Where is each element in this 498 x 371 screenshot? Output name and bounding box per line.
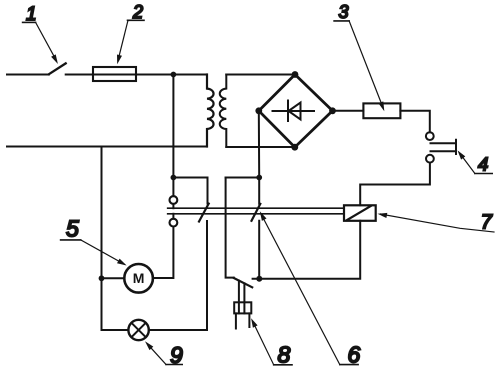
contact lower terminal circle [170, 219, 178, 227]
wire top mains stub L1 [7, 74, 49, 76]
wire secondary bottom to bridge [226, 146, 294, 148]
node dot junction left [171, 175, 177, 181]
label 7 arrowhead [378, 213, 388, 218]
label 2 underline [128, 19, 145, 21]
thermal element 8 left leg [235, 313, 237, 328]
label 6 underline [340, 364, 358, 366]
label 6 leader [261, 214, 340, 364]
node dot bridge bottom corner [291, 144, 298, 151]
label 5 underline [61, 239, 81, 241]
label 8 leader [253, 322, 274, 365]
thermal element 8 bimetal strips [239, 281, 245, 314]
contact upper terminal circle [170, 196, 178, 204]
connector X1 plug lines [431, 140, 457, 154]
wire through fuse to transformer [93, 74, 207, 76]
lamp HL1 cross [131, 323, 145, 337]
bridge rectifier VD1 diamond [259, 75, 333, 148]
label 3 arrowhead [378, 101, 384, 111]
resistor R1 body [363, 103, 400, 118]
label 9 underline [166, 364, 182, 366]
node dot bridge left corner [255, 107, 262, 114]
connector X1 lower terminal circle [426, 155, 434, 163]
label 9 arrowhead [145, 341, 153, 350]
diode symbol inside bridge [273, 101, 315, 122]
fuse F1 body [93, 67, 136, 81]
label 1 underline [23, 21, 36, 23]
wire junction horizontal right segment [226, 177, 260, 179]
wire node to motor [102, 277, 125, 279]
wire bridge minus vertical [258, 111, 260, 279]
relay K1 diagonal [347, 206, 371, 220]
connector X1 upper terminal circle [426, 132, 434, 140]
label 5 arrowhead [117, 259, 127, 266]
svg-text:2: 2 [132, 2, 143, 22]
thermal element 8 heater box [234, 302, 251, 313]
label 5 leader [81, 240, 125, 264]
label 1 leader [36, 22, 57, 60]
svg-text:3: 3 [339, 2, 349, 22]
thermal element 8 right leg [248, 313, 250, 327]
switch S1 blade [49, 63, 66, 74]
label 2 arrowhead [117, 55, 122, 65]
node dot bottom bus [256, 276, 262, 282]
wire contact stub upper [172, 204, 174, 208]
contact blade 1 [199, 204, 209, 222]
mechanical linkage bar [168, 208, 344, 214]
label 8 arrowhead [251, 318, 258, 328]
label 2 leader [118, 20, 128, 60]
label 3 leader [349, 21, 383, 108]
wire relay bottom return bus [253, 221, 361, 279]
svg-text:4: 4 [478, 153, 488, 174]
wire secondary top to bridge [226, 74, 295, 76]
node dot junction right [256, 175, 262, 181]
wire switch to fuse [66, 74, 93, 76]
wire contact stub lower [172, 214, 174, 219]
node dot top bus [171, 72, 177, 78]
svg-text:8: 8 [278, 341, 291, 367]
svg-text:M: M [133, 270, 145, 286]
label 4 leader [460, 153, 475, 173]
node dot motor branch [99, 275, 105, 281]
wire left branch to motor node [102, 147, 129, 331]
svg-text:6: 6 [348, 341, 361, 367]
relay K1 electromagnet box [344, 205, 376, 221]
svg-text:5: 5 [66, 216, 79, 242]
label 4 arrowhead [458, 150, 466, 159]
wire junction horizontal left segment [173, 177, 207, 179]
label 8 underline [274, 364, 292, 366]
wire bottom mains bus N [7, 146, 207, 148]
lamp HL1 circle [128, 320, 148, 340]
node dot bridge top corner [292, 71, 299, 78]
wire contact to motor [153, 227, 174, 279]
label 4 underline [475, 173, 492, 175]
wire bridge to resistor [333, 110, 364, 112]
wire resistor to connector [400, 111, 429, 132]
label 9 leader [147, 344, 166, 365]
svg-text:7: 7 [481, 211, 493, 233]
wire connector to relay coil [360, 163, 430, 206]
label 7 leader [381, 214, 495, 232]
wire from top bus down to contact [172, 75, 174, 197]
contact blade upper wire [207, 178, 209, 204]
wire blade to lamp [149, 221, 207, 330]
thermal contact blade [234, 278, 252, 287]
label 1 arrowhead [51, 54, 58, 64]
contact blade 2 [252, 204, 261, 221]
transformer T1 secondary winding [220, 75, 227, 148]
label 6 arrowhead [260, 211, 267, 221]
wire middle vertical to thermal switch [226, 178, 234, 278]
label 3 underline [334, 20, 349, 22]
transformer T1 primary winding [207, 75, 214, 147]
motor M1 circle [124, 264, 153, 293]
node dot bridge right corner [329, 107, 336, 114]
